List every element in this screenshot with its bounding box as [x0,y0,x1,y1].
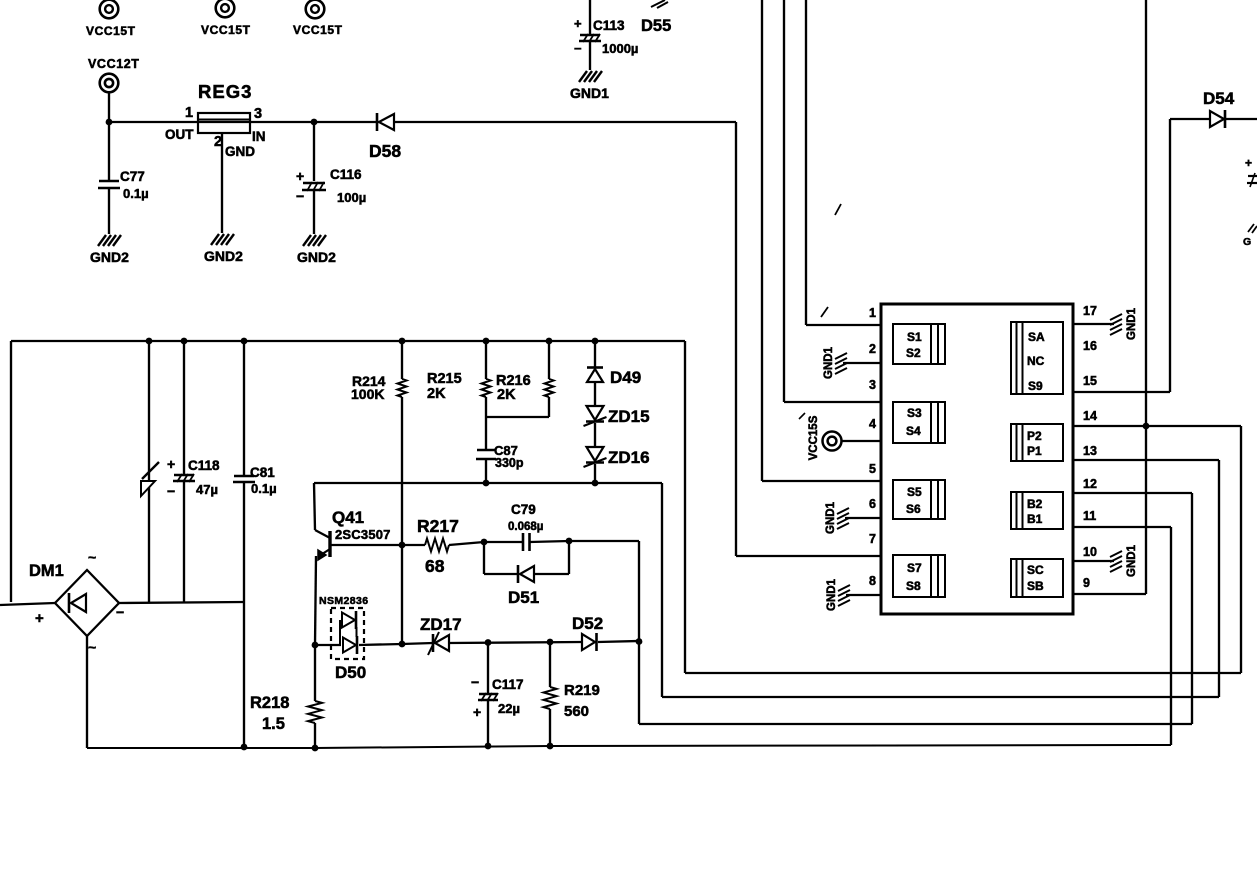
svg-text:~: ~ [88,639,96,655]
svg-text:+: + [296,168,304,184]
svg-text:1: 1 [185,105,193,121]
svg-text:C117: C117 [492,677,524,692]
svg-text:2SC3507: 2SC3507 [335,527,391,542]
svg-text:B1: B1 [1027,512,1043,526]
svg-text:R217: R217 [417,516,459,536]
svg-text:VCC15T: VCC15T [201,23,251,37]
svg-text:NC: NC [1027,354,1045,368]
svg-text:C77: C77 [120,169,145,184]
svg-text:0.068µ: 0.068µ [508,521,543,533]
svg-text:C79: C79 [511,502,536,517]
svg-text:C113: C113 [593,18,625,33]
svg-text:SA: SA [1028,330,1045,344]
svg-text:68: 68 [425,556,445,576]
svg-text:Q41: Q41 [332,508,364,527]
svg-text:3: 3 [254,106,262,122]
svg-text:P1: P1 [1027,444,1042,458]
svg-text:S9: S9 [1028,379,1043,393]
svg-text:13: 13 [1083,444,1097,458]
svg-text:16: 16 [1083,339,1097,353]
svg-text:D58: D58 [369,141,401,161]
svg-text:C118: C118 [188,458,220,473]
svg-text:22µ: 22µ [498,701,520,716]
svg-text:GND2: GND2 [204,248,243,264]
svg-text:330p: 330p [495,456,524,470]
svg-text:3: 3 [869,378,876,392]
svg-text:100µ: 100µ [337,190,366,205]
svg-text:17: 17 [1083,304,1097,318]
svg-text:0.1µ: 0.1µ [251,481,277,496]
svg-text:S7: S7 [907,561,922,575]
svg-text:D54: D54 [1203,89,1235,108]
svg-text:100K: 100K [351,386,384,402]
svg-text:−: − [574,41,582,56]
svg-text:D49: D49 [610,368,641,387]
svg-text:S5: S5 [907,485,922,499]
svg-text:6: 6 [869,497,876,511]
svg-text:B2: B2 [1027,497,1043,511]
svg-text:GND1: GND1 [825,501,837,534]
svg-text:VCC15T: VCC15T [293,23,343,37]
svg-text:REG3: REG3 [198,81,252,102]
svg-text:R215: R215 [427,371,462,387]
svg-text:R218: R218 [250,694,289,712]
svg-text:C81: C81 [250,465,275,480]
svg-text:12: 12 [1083,477,1097,491]
svg-text:S1: S1 [907,330,922,344]
svg-text:GND2: GND2 [90,249,129,265]
svg-text:IN: IN [252,129,266,144]
svg-text:VCC15T: VCC15T [86,24,136,38]
svg-text:D55: D55 [641,17,671,35]
svg-text:−: − [167,483,175,499]
svg-text:5: 5 [869,462,876,476]
svg-text:D52: D52 [572,614,603,633]
svg-text:GND1: GND1 [1126,307,1138,340]
svg-text:47µ: 47µ [196,482,218,497]
svg-text:11: 11 [1083,509,1096,523]
svg-text:GND2: GND2 [297,249,336,265]
svg-text:GND1: GND1 [826,578,838,611]
svg-text:R219: R219 [564,682,600,699]
svg-text:SC: SC [1027,563,1044,577]
svg-text:−: − [471,674,479,690]
svg-text:ZD16: ZD16 [608,448,650,467]
svg-text:S4: S4 [906,424,921,438]
svg-text:VCC12T: VCC12T [88,57,140,71]
svg-text:~: ~ [88,549,96,565]
svg-text:ZD17: ZD17 [420,615,462,634]
svg-text:1: 1 [869,306,876,320]
svg-text:VCC15S: VCC15S [808,415,820,460]
svg-text:G: G [1243,236,1251,248]
svg-text:8: 8 [869,574,876,588]
svg-text:+: + [574,16,582,31]
svg-text:−: − [296,188,304,204]
svg-text:GND1: GND1 [1126,544,1138,577]
svg-text:S6: S6 [906,502,921,516]
svg-text:1.5: 1.5 [262,715,285,733]
svg-text:2K: 2K [497,387,516,403]
svg-text:S8: S8 [906,579,921,593]
svg-text:ZD15: ZD15 [608,407,650,426]
svg-text:0.1µ: 0.1µ [123,186,149,201]
svg-text:9: 9 [1083,576,1090,590]
svg-text:GND1: GND1 [570,85,609,101]
svg-text:2K: 2K [427,386,446,402]
svg-text:NSM2836: NSM2836 [319,595,369,607]
svg-text:7: 7 [869,532,876,546]
svg-text:S3: S3 [907,406,922,420]
svg-text:GND: GND [225,144,255,159]
svg-text:C116: C116 [330,167,362,182]
svg-text:P2: P2 [1027,429,1042,443]
svg-text:+: + [35,610,44,627]
svg-text:560: 560 [564,703,589,720]
svg-text:15: 15 [1083,374,1097,388]
svg-text:−: − [116,604,124,620]
svg-text:+: + [1245,156,1252,170]
svg-text:14: 14 [1083,409,1097,423]
svg-text:10: 10 [1083,545,1097,559]
svg-text:2: 2 [869,342,876,356]
svg-text:+: + [167,456,175,472]
svg-text:4: 4 [869,417,876,431]
svg-text:SB: SB [1027,579,1044,593]
svg-text:D51: D51 [508,588,539,607]
svg-text:GND1: GND1 [823,346,835,379]
svg-text:S2: S2 [906,346,921,360]
svg-text:DM1: DM1 [29,562,64,580]
svg-text:D50: D50 [335,663,366,682]
svg-text:2: 2 [214,134,222,150]
svg-text:1000µ: 1000µ [602,41,638,56]
svg-text:OUT: OUT [165,127,194,142]
svg-text:+: + [473,704,481,720]
